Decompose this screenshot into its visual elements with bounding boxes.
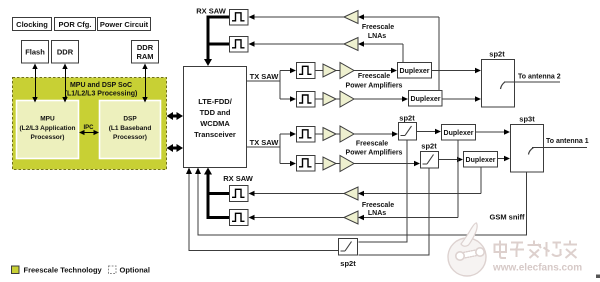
svg-text:(L2/L3 Application: (L2/L3 Application bbox=[19, 125, 75, 132]
svg-text:RX SAW: RX SAW bbox=[196, 7, 227, 16]
svg-text:Freescale Technology: Freescale Technology bbox=[24, 265, 103, 274]
svg-text:TX SAW: TX SAW bbox=[250, 138, 280, 147]
svg-text:LNAs: LNAs bbox=[368, 33, 386, 40]
svg-text:Duplexer: Duplexer bbox=[466, 157, 496, 164]
svg-text:RAM: RAM bbox=[136, 52, 153, 61]
svg-text:DSP: DSP bbox=[123, 116, 137, 123]
svg-text:Optional: Optional bbox=[120, 265, 150, 274]
svg-text:GSM sniff: GSM sniff bbox=[490, 213, 526, 222]
svg-text:TX SAW: TX SAW bbox=[250, 72, 280, 81]
svg-text:sp3t: sp3t bbox=[519, 115, 535, 124]
svg-text:TDD and: TDD and bbox=[200, 108, 231, 117]
svg-text:(L1/L2/L3 Processing): (L1/L2/L3 Processing) bbox=[65, 91, 138, 98]
svg-text:Freescale: Freescale bbox=[362, 24, 394, 31]
svg-text:Power Circuit: Power Circuit bbox=[100, 20, 149, 29]
svg-text:MPU: MPU bbox=[40, 116, 55, 123]
svg-text:www.elecfans.com: www.elecfans.com bbox=[492, 263, 582, 274]
svg-text:Duplexer: Duplexer bbox=[400, 68, 430, 75]
svg-text:Freescale: Freescale bbox=[362, 202, 394, 209]
svg-text:LNAs: LNAs bbox=[368, 210, 386, 217]
svg-text:Power Amplifiers: Power Amplifiers bbox=[346, 83, 403, 90]
svg-text:sp2t: sp2t bbox=[421, 142, 437, 151]
svg-text:RX SAW: RX SAW bbox=[223, 174, 254, 183]
svg-text:DDR: DDR bbox=[57, 48, 74, 57]
svg-text:Processor): Processor) bbox=[113, 134, 147, 141]
svg-text:MPU and DSP SoC: MPU and DSP SoC bbox=[70, 82, 132, 89]
svg-text:DDR: DDR bbox=[137, 43, 154, 52]
svg-text:sp2t: sp2t bbox=[340, 259, 356, 268]
svg-text:Flash: Flash bbox=[25, 48, 45, 57]
svg-text:sp2t: sp2t bbox=[489, 50, 505, 59]
svg-text:WCDMA: WCDMA bbox=[200, 119, 230, 128]
svg-text:Transceiver: Transceiver bbox=[194, 130, 236, 139]
svg-text:sp2t: sp2t bbox=[399, 114, 415, 123]
svg-text:To antenna 1: To antenna 1 bbox=[546, 138, 589, 145]
svg-text:Processor): Processor) bbox=[31, 134, 65, 141]
svg-text:Duplexer: Duplexer bbox=[444, 130, 474, 137]
svg-text:POR Cfg.: POR Cfg. bbox=[59, 20, 92, 29]
svg-text:LTE-FDD/: LTE-FDD/ bbox=[198, 97, 233, 106]
svg-text:To antenna 2: To antenna 2 bbox=[518, 74, 561, 81]
svg-text:Freescale: Freescale bbox=[356, 141, 388, 148]
svg-text:IPC: IPC bbox=[83, 125, 94, 131]
svg-text:(L1 Baseband: (L1 Baseband bbox=[109, 125, 152, 132]
svg-text:Power Amplifiers: Power Amplifiers bbox=[346, 150, 403, 157]
svg-text:Freescale: Freescale bbox=[358, 73, 390, 80]
svg-text:Duplexer: Duplexer bbox=[411, 96, 441, 103]
svg-text:Clocking: Clocking bbox=[16, 20, 48, 29]
